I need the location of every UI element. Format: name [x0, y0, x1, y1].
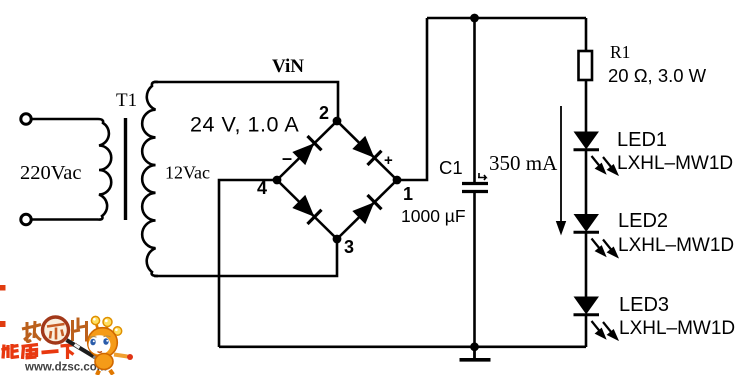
mascot face	[89, 335, 111, 354]
watermark magnifier ring	[43, 317, 69, 343]
wire node 1 right and up to top rail	[397, 18, 427, 180]
transformer T1 core	[124, 118, 127, 220]
watermark text xia red char	[61, 345, 77, 360]
LED1	[574, 132, 600, 150]
svg-text:220Vac: 220Vac	[20, 162, 81, 184]
watermark red square left	[0, 321, 6, 327]
watermark char pian	[73, 318, 87, 342]
junction dot bottom rail	[470, 342, 479, 351]
watermark char zhao	[22, 321, 41, 342]
LED1 emission arrows	[592, 156, 619, 175]
svg-text:1: 1	[403, 184, 413, 204]
diode D4 (3 to 1)	[352, 195, 381, 224]
bridge side 3-1	[337, 180, 397, 239]
transformer T1 secondary winding	[142, 82, 158, 276]
watermark text weiku red char ku	[22, 344, 39, 359]
watermark logo dzsc	[0, 285, 133, 375]
watermark char xin inside magnifier	[47, 324, 65, 340]
node 4 junction dot	[273, 176, 282, 185]
svg-text:LED1: LED1	[617, 129, 667, 151]
wire primary bottom	[32, 218, 99, 221]
svg-text:ViN: ViN	[272, 56, 304, 77]
capacitor C1 polarity mark	[478, 173, 486, 180]
mascot head	[88, 328, 118, 358]
svg-text:1000 µF: 1000 µF	[401, 206, 466, 226]
terminal bottom-left input	[21, 214, 31, 224]
wire R1 bottom to LED1	[585, 80, 588, 133]
wire LED1 to LED2	[585, 150, 588, 215]
junction dot top rail	[470, 14, 479, 23]
svg-text:LXHL–MW1D: LXHL–MW1D	[617, 153, 733, 174]
diode D2 (2 to 1)	[352, 136, 381, 165]
diode D3 (4 to 3)	[292, 195, 321, 224]
node 1 junction dot	[393, 176, 402, 185]
capacitor C1 plates	[462, 184, 488, 192]
svg-text:350 mA: 350 mA	[489, 151, 558, 175]
svg-text:20 Ω, 3.0 W: 20 Ω, 3.0 W	[608, 65, 707, 86]
svg-text:LED3: LED3	[619, 294, 669, 316]
wire LED2 to LED3	[585, 232, 588, 297]
wire top rail	[427, 17, 586, 20]
transformer T1 primary winding	[98, 119, 111, 220]
svg-text:C1: C1	[439, 157, 463, 178]
bridge side 4-2	[277, 121, 337, 180]
svg-text:2: 2	[319, 103, 329, 123]
LED3	[574, 297, 600, 315]
svg-text:LXHL–MW1D: LXHL–MW1D	[618, 235, 734, 256]
LED2 emission arrows	[592, 239, 619, 258]
watermark text yi red char	[42, 351, 59, 353]
wire primary top	[32, 118, 99, 121]
wire capacitor branch lower	[473, 192, 476, 347]
resistor R1	[579, 51, 593, 80]
mascot body	[95, 354, 133, 375]
mascot antenna stalks	[97, 325, 116, 338]
svg-text:R1: R1	[610, 42, 630, 62]
svg-text:4: 4	[257, 178, 267, 198]
diode D1 (4 to 2)	[292, 136, 321, 165]
node 2 junction dot	[333, 117, 342, 126]
svg-text:LXHL–MW1D: LXHL–MW1D	[619, 318, 735, 339]
wire ViN secondary top to node 2	[154, 82, 338, 121]
node 3 junction dot	[333, 235, 342, 244]
svg-text:12Vac: 12Vac	[165, 163, 210, 183]
bridge side 2-1	[337, 121, 397, 180]
wire capacitor branch upper	[473, 18, 476, 183]
svg-text:+: +	[384, 152, 393, 169]
ground symbol	[460, 347, 491, 360]
wire LED3 to bottom rail	[585, 315, 588, 347]
watermark red square top	[0, 285, 6, 291]
wire R1 top	[585, 18, 588, 51]
terminal top-left input	[21, 114, 31, 124]
svg-text:T1: T1	[116, 90, 137, 111]
mascot eyes	[90, 336, 111, 352]
svg-text:3: 3	[344, 237, 354, 257]
wire secondary bottom to node 3	[154, 239, 337, 276]
mascot antenna balls	[91, 316, 121, 335]
wire node 4 to left and down to bottom rail	[219, 180, 277, 347]
wire bottom rail	[219, 345, 586, 348]
LED2	[574, 215, 600, 233]
current arrow 350 mA	[557, 106, 566, 234]
svg-text:LED2: LED2	[618, 210, 668, 232]
bridge side 4-3	[277, 180, 337, 239]
watermark text weiku red char wei	[2, 344, 20, 359]
svg-text:–: –	[282, 148, 292, 168]
svg-text:24 V, 1.0 A: 24 V, 1.0 A	[190, 113, 299, 137]
mascot pen	[67, 340, 100, 360]
LED3 emission arrows	[592, 321, 619, 340]
